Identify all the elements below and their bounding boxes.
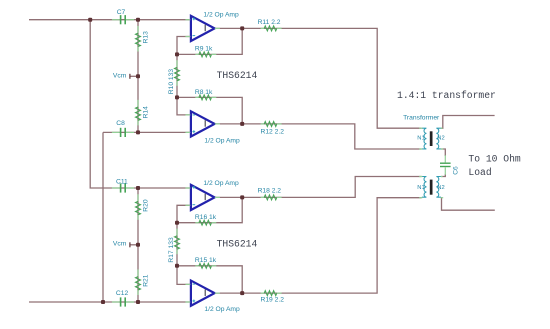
op-amp U1 (1/2 Op Amp) <box>185 12 239 41</box>
wire: R20/R21 column <box>137 188 139 302</box>
svg-text:N1: N1 <box>417 185 424 191</box>
op-amp U2 (1/2 Op Amp) <box>185 111 240 144</box>
svg-text:C8: C8 <box>116 120 125 127</box>
junction node (177,265.8) <box>175 264 179 268</box>
svg-text:R12 2.2: R12 2.2 <box>261 128 285 135</box>
resistor R13 <box>136 26 150 52</box>
wire: R13/R14 column <box>137 20 139 133</box>
svg-text:1/2 Op Amp: 1/2 Op Amp <box>204 138 240 145</box>
wire: R10 column <box>176 54 178 97</box>
svg-text:R9 1k: R9 1k <box>195 46 213 53</box>
junction node (177,54.4) <box>175 52 179 56</box>
junction node (177,222.7) <box>175 221 179 225</box>
svg-text:C6: C6 <box>452 166 459 175</box>
wire: U2 output through R12 to transformer T1 N1 bottom <box>215 124 422 149</box>
svg-text:1/2 Op Amp: 1/2 Op Amp <box>203 180 239 187</box>
svg-text:1.4:1 transformer: 1.4:1 transformer <box>397 90 496 101</box>
resistor R17 133 <box>168 229 179 263</box>
resistor R14 <box>136 100 150 126</box>
junction node (138,244.8) <box>136 243 140 247</box>
transformer T1 (Transformer, windings N1/N2) <box>403 115 445 149</box>
svg-text:THS6214: THS6214 <box>217 239 258 250</box>
capacitor C6 <box>440 155 459 175</box>
svg-text:R17 133: R17 133 <box>168 237 175 263</box>
capacitor C7 <box>112 9 134 24</box>
capacitor C11 <box>112 178 134 192</box>
resistor R18 2.2 <box>258 188 282 200</box>
junction node (177,97.4) <box>175 95 179 99</box>
wire: U4 feedback -in to R15 row <box>177 266 191 285</box>
op-amp U4 (1/2 Op Amp) <box>185 281 240 313</box>
svg-text:Load: Load <box>468 167 491 178</box>
capacitor C12 <box>112 290 134 307</box>
wire: T1 N2 top to load top rail <box>441 116 495 129</box>
svg-text:R15 1k: R15 1k <box>195 257 217 264</box>
junction node (90.2,19.7) <box>88 18 92 22</box>
svg-text:N1: N1 <box>417 135 424 141</box>
resistor R9 1k <box>195 46 216 57</box>
wire: C6 to T2 N2 top <box>441 174 445 176</box>
svg-text:1/2 Op Amp: 1/2 Op Amp <box>203 12 239 19</box>
junction node (242.2,28.4) <box>240 26 244 30</box>
svg-text:C11: C11 <box>116 178 128 185</box>
svg-text:C7: C7 <box>117 9 126 16</box>
svg-text:To 10 Ohm: To 10 Ohm <box>468 154 521 165</box>
svg-text:R11 2.2: R11 2.2 <box>258 19 281 26</box>
junction node (138,132.4) <box>136 130 140 134</box>
capacitor C8 <box>112 120 134 137</box>
wire: vertical tie from C8 row down to bottom rail <box>102 132 104 302</box>
wire: input- bottom rail to op-amp U4 +in <box>29 301 191 303</box>
wire: U3 output through R18 to transformer T2 N1 top <box>215 177 422 198</box>
wire: U1 output through R11 to transformer T1 N1 top <box>215 28 422 128</box>
svg-text:R19 2.2: R19 2.2 <box>261 297 285 304</box>
svg-text:R16 1k: R16 1k <box>195 214 217 221</box>
resistor R11 2.2 <box>258 19 282 31</box>
wire: T2 N2 bottom to load bottom rail <box>441 198 495 211</box>
junction node (138,19.7) <box>136 18 140 22</box>
resistor R15 1k <box>195 257 217 268</box>
svg-text:R14: R14 <box>143 106 150 119</box>
wire: R17 column <box>176 223 178 266</box>
svg-text:R8 1k: R8 1k <box>195 89 213 96</box>
junction node (103,302) <box>101 300 105 304</box>
resistor R10 133 <box>168 60 179 94</box>
svg-text:R10 133: R10 133 <box>168 69 175 95</box>
svg-text:Vcm: Vcm <box>113 73 127 80</box>
junction node (242.2,123.9) <box>240 122 244 126</box>
transformer T2 (windings N1/N2) <box>417 177 444 198</box>
wire: U3 feedback -in to R16 row <box>177 205 191 222</box>
wire: C8 row to op-amp U2 +in <box>103 131 191 133</box>
svg-text:N2: N2 <box>437 185 444 191</box>
resistor R20 <box>136 194 150 220</box>
wire: Vcm stub channel 2 <box>130 244 138 246</box>
svg-text:Transformer: Transformer <box>403 115 440 122</box>
wire: vertical tie from top rail down to C11 row <box>90 20 190 188</box>
svg-text:1/2 Op Amp: 1/2 Op Amp <box>204 306 240 313</box>
svg-text:N2: N2 <box>437 135 444 141</box>
junction node (242.2,293.15) <box>240 291 244 295</box>
resistor R12 2.2 <box>261 122 285 136</box>
wire: R16 row <box>177 197 242 222</box>
wire: U4 output through R19 to transformer T2 N1 bottom <box>215 198 422 293</box>
wire: input+ top rail to op-amp U1 +in <box>29 19 191 21</box>
svg-text:THS6214: THS6214 <box>217 70 258 81</box>
resistor R21 <box>136 269 150 295</box>
wire: Vcm stub channel 1 <box>130 75 138 77</box>
junction node (138,302) <box>136 300 140 304</box>
svg-text:Vcm: Vcm <box>113 241 127 248</box>
resistor R16 1k <box>195 214 217 225</box>
wire: U2 feedback -in to R8 row <box>177 97 191 115</box>
svg-text:C12: C12 <box>116 290 129 297</box>
svg-text:R21: R21 <box>143 274 150 287</box>
resistor R8 1k <box>195 89 216 100</box>
op-amp U3 (1/2 Op Amp) <box>185 180 239 210</box>
wire: R9 row <box>177 28 242 54</box>
wire: R15 row <box>177 266 242 293</box>
svg-text:R18 2.2: R18 2.2 <box>258 188 282 195</box>
wire: R8 row <box>177 97 242 124</box>
svg-text:R20: R20 <box>143 199 150 212</box>
junction node (242.2,197.4) <box>240 195 244 199</box>
junction node (138,76.3) <box>136 74 140 78</box>
junction node (138,188) <box>136 186 140 190</box>
wire: U1 feedback -in to R9 row <box>177 37 191 55</box>
svg-text:R13: R13 <box>143 31 150 44</box>
resistor R19 2.2 <box>261 291 285 304</box>
wire: T1 N2 bottom to C6 <box>441 149 445 156</box>
